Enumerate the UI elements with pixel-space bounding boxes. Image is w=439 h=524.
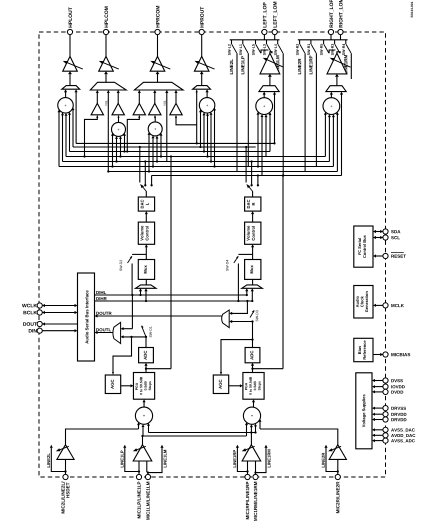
buffer amp to HPLCOM from DAC (112, 90, 124, 122)
wire AGC to PGA right (229, 385, 241, 387)
output mux HPLCOM (90, 71, 126, 90)
pin RESET (373, 253, 406, 259)
bias reference block (354, 338, 373, 361)
buffer amp to HPRCOM 1 (133, 90, 145, 115)
audio serial bus interface block (78, 273, 95, 361)
wire record sum inputs left (137, 422, 150, 436)
input amp LINE1R differential (242, 445, 261, 475)
output driver amp HPROUT (194, 35, 214, 72)
switch SW-D4 (226, 254, 253, 302)
summing amp HPROUT (199, 89, 215, 113)
buffer amp to HPRCOM 3 (170, 90, 182, 115)
bypass arrow LINE2L (47, 445, 67, 473)
wire sum to PGA right (253, 401, 255, 407)
wire DIHL (95, 291, 247, 295)
wire bus to HPLCOM buffer (85, 117, 98, 157)
switch SW-R1 (307, 40, 316, 55)
wire sum to PGA left (143, 401, 145, 407)
wire bus to HPRCOM buffer 3 (176, 117, 197, 125)
wire DIHL to DOUTL mux (121, 294, 134, 330)
switch SW-R5 (320, 40, 329, 55)
input amp LINE1L differential (133, 445, 152, 475)
pin MIC2R/LINE2R (335, 474, 340, 513)
record summing amp right (243, 407, 260, 424)
pin AVSS_ADC (372, 438, 415, 443)
chip boundary (dashed) (39, 32, 386, 477)
wire bus to HPRCOM buffer 1 (127, 117, 139, 152)
figure code (411, 2, 413, 18)
pin DRVSS (372, 406, 406, 411)
summing amp HPLCOM (112, 122, 126, 136)
wire record input buses (66, 429, 338, 445)
volume control right (245, 211, 261, 244)
line output driver amp LEFT_LO (260, 53, 284, 74)
pin MIC1LM/LINE1LM (145, 474, 150, 519)
summing amp HPRCOM (148, 122, 162, 136)
RIGHT bypass lines to switches (298, 53, 351, 171)
pin AVDD_DAC (372, 433, 415, 438)
wire LEFT driver outputs to switches (261, 50, 272, 53)
bypass arrow LINE1RM (254, 445, 270, 474)
buffer amp to HPLCOM from left (91, 90, 103, 115)
bypass arrow LINE1LM (147, 445, 167, 474)
wire DOUTR (95, 312, 222, 318)
input amp LINE2L (56, 445, 74, 475)
wire DOUTL (95, 328, 115, 334)
pin HPRCOM (155, 6, 160, 35)
DOUT left channel mux (113, 322, 121, 343)
summing amp LEFT_LO (256, 92, 273, 115)
wire LEFT_LO sum inputs from buses (257, 92, 277, 176)
signal line into HPLCOM mux (105, 90, 110, 172)
switch SW-L2 (228, 40, 237, 55)
DAC L (138, 197, 154, 211)
pin DIN (29, 328, 78, 333)
PGA right (243, 373, 264, 400)
switch SW-L4 (274, 40, 283, 55)
voltage supplies block (356, 373, 372, 449)
pin LEFT_LOP (262, 2, 267, 34)
DAC left output switch (139, 146, 153, 197)
pin DRVDD (372, 417, 406, 422)
wire DIHR (95, 297, 253, 301)
wire RIGHT driver outputs to switches (329, 50, 340, 53)
wire PGA to ADC right (252, 365, 254, 373)
pin HPROUT (199, 7, 204, 35)
output mux HPLOUT (62, 71, 80, 89)
output driver amp HPLCOM (99, 35, 119, 72)
wire LINE1R amp to sum (250, 433, 252, 445)
wire DIHR to DOUTR mux (229, 300, 248, 315)
DAC input mux left (138, 244, 154, 279)
line output driver amp RIGHT_LO (327, 53, 351, 74)
LEFT bypass lines to switches (230, 53, 284, 176)
pin MCLK (373, 303, 404, 308)
audio clock generation block (354, 286, 373, 319)
output mux HPROUT (193, 71, 211, 89)
pin DVSS (372, 378, 403, 383)
switch SW-L1 (239, 40, 248, 55)
pin HPLCOM (103, 6, 108, 34)
DAC R (245, 197, 261, 211)
pin MIC1RM/LINE1RM (253, 474, 258, 520)
wire PGA output branch right (251, 174, 284, 370)
pin SCL (373, 235, 400, 240)
wire LEFT_LO pin rail (230, 35, 280, 40)
switch SW-L5 (252, 40, 261, 55)
switch SW-L3 (263, 40, 272, 55)
pin MIC1RP/LINE1RP (245, 474, 250, 519)
DAC right output switch (245, 146, 259, 197)
pin MICBIAS (373, 352, 410, 357)
pin IOVDD (372, 384, 405, 389)
wire output mixing buses (59, 143, 342, 175)
AGC right (213, 375, 228, 394)
DAC source selector trapezoid right (242, 279, 262, 302)
pin RIGHT_LOP (328, 0, 333, 35)
summing amp RIGHT_LO (323, 92, 340, 115)
wire HPRCOM sum inputs from buses (148, 132, 163, 171)
bypass arrow LINE1LP (121, 445, 141, 473)
volume control left (138, 211, 154, 244)
pin RIGHT_LOM (338, 0, 343, 35)
wire PGA to ADC left (145, 365, 147, 373)
switch SW-D1 (121, 325, 152, 347)
switch SW-D2 (120, 254, 147, 295)
pin MIC1LP/LINE1LP (136, 474, 141, 518)
output mux LEFT_LO (259, 74, 279, 92)
switch SW-R3 (331, 40, 340, 55)
buffer amp to HPRCOM 2 (149, 90, 161, 122)
ADC right (245, 348, 260, 363)
wire HPLCOM sum inputs from buses (111, 133, 126, 167)
pin BCLK (23, 310, 77, 315)
pin HPLOUT (67, 7, 72, 34)
DAC source selector trapezoid left (136, 279, 157, 302)
input amp LINE2R (328, 445, 346, 475)
PGA left (133, 373, 154, 400)
wire ADC right to AGC (220, 338, 254, 375)
wire record sum inputs right (245, 419, 262, 436)
pin DRVDD (372, 412, 406, 417)
wire LINE1L amp to sum (142, 436, 144, 445)
pin DOUT (23, 321, 77, 326)
summing amp HPLOUT (58, 89, 74, 113)
signal line into HPRCOM mux (164, 90, 169, 162)
output driver amp HPRCOM (150, 35, 170, 72)
pin WCLK (22, 303, 77, 308)
wire HPROUT sum inputs from buses (196, 89, 216, 166)
junction dots on buses (83, 142, 275, 172)
pin SDA (373, 229, 400, 234)
AGC left (105, 375, 120, 394)
bypass arrow LINE1RP (233, 445, 248, 473)
pin MIC2L/LINE2L/HSDET (61, 474, 69, 513)
switch SW-R4 (342, 40, 351, 55)
wire HPLOUT sum inputs from buses (58, 89, 78, 166)
I2C serial control bus block (354, 226, 373, 267)
DAC input mux right (245, 244, 261, 279)
pin AVSS_DAC (372, 427, 415, 432)
wire PGA output branch left (145, 155, 172, 370)
switch SW-R2 (296, 40, 305, 55)
bypass arrow LINE2R (322, 445, 339, 473)
output driver amp HPLOUT (63, 35, 83, 72)
output mux RIGHT_LO (326, 74, 346, 92)
pin LEFT_LOM (272, 2, 277, 35)
ADC left (139, 348, 154, 363)
switch SW-D3 (229, 310, 258, 348)
record summing amp left (135, 407, 152, 424)
wire ADC left to AGC (112, 336, 133, 375)
output mux HPRCOM (134, 71, 183, 90)
DOUT right channel mux (222, 310, 230, 328)
wire RIGHT_LO sum inputs from buses (324, 92, 343, 176)
pin DVDD (372, 389, 403, 394)
wire AGC to PGA left (121, 385, 132, 387)
wire RIGHT_LO pin rail (298, 35, 348, 40)
